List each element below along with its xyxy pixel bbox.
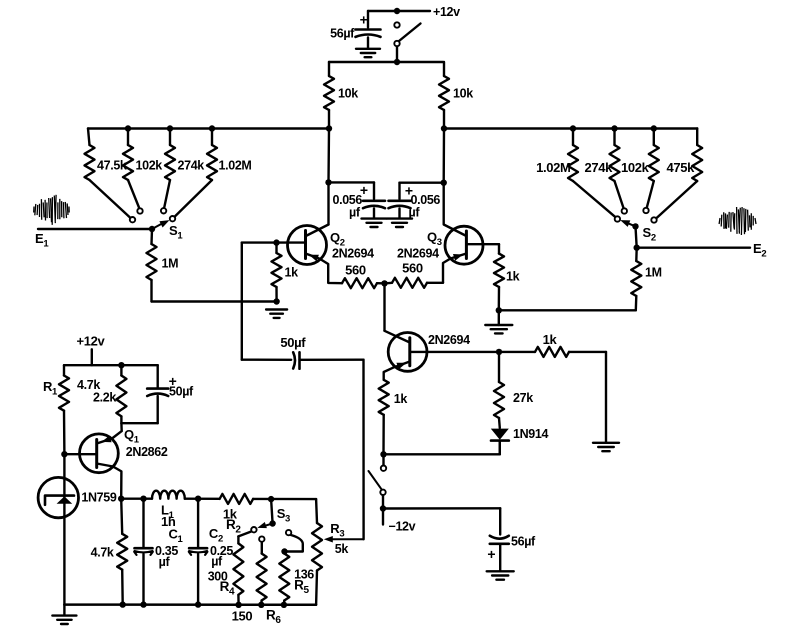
wire to right 1M bottom (499, 309, 636, 311)
svg-text:1M: 1M (162, 257, 179, 271)
svg-text:475k: 475k (666, 160, 695, 175)
wire L1 right (185, 498, 220, 500)
switch S2 contact a (615, 216, 620, 221)
wire 10k right bottom lead (443, 110, 445, 129)
diode 1N914 (491, 429, 509, 440)
wire Q4 base lead (410, 351, 499, 353)
ground 0.056 left (362, 217, 387, 219)
svg-text:560: 560 (402, 260, 423, 275)
ground left bias (266, 308, 287, 310)
capacitor 0.056uf left (363, 200, 385, 203)
potentiometer R3 5k (312, 523, 322, 571)
node E2 junction (634, 245, 640, 251)
node bus tap 1.02M right (570, 125, 576, 131)
inductor L1 (152, 491, 185, 499)
wire +12v stub lower (91, 349, 93, 365)
svg-text:1N759: 1N759 (81, 491, 116, 505)
svg-text:27k: 27k (513, 391, 533, 405)
transistor Q1 emitter arrow (102, 436, 112, 443)
wire S2 to E2 node (636, 226, 637, 247)
node left cap tap (325, 179, 331, 185)
transistor Q3 emitter (443, 254, 466, 283)
wire L1 left (121, 498, 152, 500)
transistor Q2 emitter (306, 254, 343, 284)
wire right cap branch (400, 181, 444, 183)
resistor 560 left (342, 278, 377, 288)
node emitter junction (381, 280, 387, 286)
wire pot top lead (315, 499, 318, 523)
svg-text:50µf: 50µf (280, 335, 306, 350)
wire 10k left bottom lead (328, 110, 330, 128)
transistor Q3 base bar (465, 231, 468, 259)
node bottom C1 (140, 601, 146, 607)
wire Q2 collector (327, 182, 329, 224)
svg-text:10k: 10k (338, 87, 358, 101)
switch S1 contact b (137, 208, 142, 213)
transistor Q1 emitter (97, 431, 122, 443)
resistor 47.5k (85, 145, 95, 180)
waveform output scribble (719, 207, 756, 235)
wire 1.02M right to contact (573, 181, 616, 217)
waveform input scribble (34, 195, 69, 225)
svg-text:+: + (487, 546, 495, 562)
resistor 102k right (649, 145, 659, 181)
node bottom R4 (235, 602, 241, 608)
wire contact c hook (285, 535, 303, 552)
wire E2 output (637, 246, 750, 248)
svg-text:1k: 1k (506, 270, 520, 284)
resistor 274k right (610, 145, 620, 181)
resistor R6 150 (261, 542, 263, 553)
svg-text:1k: 1k (394, 392, 408, 406)
resistor 560 right (392, 278, 427, 288)
ground bottom 56uf (487, 570, 514, 572)
svg-text:56µf: 56µf (511, 535, 536, 549)
wire Q3 collector (444, 183, 467, 236)
wire left bus (88, 127, 329, 129)
svg-text:µf: µf (159, 555, 171, 569)
svg-text:+12v: +12v (77, 333, 106, 348)
svg-text:E1: E1 (35, 231, 49, 250)
node C2 tap (195, 496, 201, 502)
transistor Q1 base bar (95, 440, 98, 468)
node bus tap 274k (167, 125, 173, 131)
wire Q3 base lead (466, 243, 499, 245)
svg-text:R4: R4 (220, 579, 235, 598)
wire contact to node (382, 495, 384, 508)
wire emitter node drop (383, 283, 385, 330)
wire R2 to S3 node (253, 498, 316, 501)
svg-text:102k: 102k (621, 160, 650, 175)
diode zener bar (45, 496, 74, 505)
wire 560 right leads (385, 282, 393, 285)
wire left cap branch (329, 181, 375, 183)
switch S3 contact b (259, 536, 264, 541)
svg-text:R6: R6 (266, 608, 281, 627)
resistor 1k Q4 emitter (379, 380, 389, 415)
resistor 1M right (631, 261, 641, 296)
switch S3 blade arrow (264, 524, 273, 527)
capacitor 56uf bottom (490, 536, 509, 539)
node lower rail tap (118, 362, 124, 368)
wire Q4 collector (385, 331, 410, 343)
wire -12v stub (382, 509, 384, 525)
capacitor 50uf coupling (293, 352, 295, 368)
resistor 1.02M right (568, 145, 578, 181)
wire lower supply rail (64, 364, 158, 366)
node bottom Q1col (120, 601, 126, 607)
resistor 1k Q3 load (498, 244, 500, 253)
svg-text:274k: 274k (584, 160, 613, 175)
svg-text:Q1: Q1 (124, 427, 140, 446)
wire pot wiper (331, 538, 364, 540)
resistor 475k (692, 145, 702, 181)
wire 102k to contact (128, 180, 139, 208)
wire cap right to gnd (398, 209, 400, 219)
svg-text:1.02M: 1.02M (536, 160, 570, 175)
svg-text:µf: µf (349, 205, 361, 219)
wire 274k right to contact (615, 181, 624, 208)
wire cap to ground (367, 38, 369, 49)
pot wiper arrow (324, 536, 333, 543)
wire bottom rail (64, 603, 316, 606)
wire load node stub (498, 310, 500, 325)
wire through zener (63, 454, 65, 605)
svg-text:2N2694: 2N2694 (397, 247, 439, 261)
node collector-L1 tee (118, 496, 124, 502)
node -12v junction (380, 505, 386, 511)
wire switch feed (384, 453, 500, 455)
svg-text:2N2694: 2N2694 (428, 333, 470, 347)
switch S2 contact d (651, 217, 656, 222)
svg-text:S2: S2 (643, 225, 656, 244)
node right cap tap (441, 180, 447, 186)
resistor R5 136 (279, 554, 289, 601)
wire coupling left (242, 359, 291, 361)
transistor Q4 base bar (408, 338, 411, 366)
transistor Q2 circle (288, 226, 327, 265)
wire 102k right top lead (653, 129, 655, 146)
svg-text:+: + (360, 12, 368, 28)
wire coupling right (300, 359, 364, 361)
node bottom R6 (258, 602, 264, 608)
resistor 2.2k (120, 365, 122, 375)
node S1 pole (149, 226, 155, 232)
node switch top (380, 451, 386, 457)
wire Q2 base drop (241, 243, 243, 360)
ground 0.056 right (387, 217, 412, 219)
node bus tap 102k (125, 125, 131, 131)
switch S2 contact b (622, 208, 627, 213)
svg-text:2N2862: 2N2862 (126, 445, 168, 459)
switch S1 contact d (170, 216, 175, 221)
svg-text:−12v: −12v (389, 520, 416, 534)
switch S3 contact c (286, 530, 291, 535)
wire collector supply rail (329, 61, 443, 63)
resistor R2 1k (220, 494, 254, 504)
node bus tap 1.02M (209, 125, 215, 131)
node Q3 load bottom (496, 307, 502, 313)
svg-text:102k: 102k (136, 159, 163, 173)
svg-text:56µf: 56µf (330, 26, 355, 40)
wire +12v supply rail (368, 10, 430, 12)
svg-text:2N2694: 2N2694 (332, 247, 374, 261)
resistor 10k left (324, 76, 334, 110)
resistor 27k (494, 382, 504, 418)
switch S2 wiper arrow (626, 222, 636, 226)
wire right collector drop (443, 129, 446, 183)
svg-text:1N914: 1N914 (513, 427, 548, 441)
svg-text:C2: C2 (209, 526, 223, 545)
svg-text:1k: 1k (543, 332, 558, 347)
wire contact a to R4 (238, 532, 251, 537)
ground right mid (593, 442, 619, 444)
node S3 feed (268, 496, 274, 502)
wire 475k top lead (696, 129, 698, 146)
switch S1 contact a (130, 217, 135, 222)
svg-text:R1: R1 (43, 379, 58, 398)
switch Spwr2 blade (369, 471, 382, 489)
node bus tap 274k right (611, 125, 617, 131)
node +12v junction (394, 8, 400, 14)
transistor Q3 circle (445, 226, 483, 264)
svg-text:1k: 1k (285, 266, 299, 280)
wire 47.5k to contact (90, 180, 131, 218)
switch Spwr2 lower contact (380, 490, 385, 495)
resistor 1.02M left (207, 145, 217, 180)
wire Q1 base lead (64, 453, 96, 455)
svg-text:µf: µf (211, 555, 223, 569)
svg-text:274k: 274k (178, 159, 205, 173)
svg-text:5k: 5k (335, 542, 349, 556)
svg-text:150: 150 (232, 608, 253, 623)
node S2 pole (632, 223, 638, 229)
node S3 pole (269, 520, 275, 526)
svg-text:E2: E2 (753, 241, 766, 260)
svg-text:C1: C1 (169, 526, 184, 545)
transistor Q4 emitter (384, 362, 410, 380)
node Q4 base junction (496, 349, 502, 355)
svg-text:1M: 1M (645, 266, 662, 280)
svg-text:10k: 10k (453, 87, 473, 101)
wire S3 pole lead (271, 499, 273, 523)
transistor Q1 collector (97, 464, 122, 499)
svg-text:560: 560 (345, 263, 366, 278)
resistor 1M left (150, 229, 153, 244)
wire 1M bottom to ground node (152, 300, 277, 302)
wire 274k right top lead (613, 129, 615, 146)
wire 274k to contact (164, 180, 170, 208)
svg-text:S3: S3 (277, 506, 290, 525)
resistor 102k (123, 145, 133, 180)
wire 50uf branch (156, 365, 158, 387)
node supply rail (394, 59, 400, 65)
diode zener triangle (57, 496, 73, 503)
svg-text:+12v: +12v (433, 5, 460, 19)
node Q2 base-1k (273, 239, 279, 245)
ground Q3 load (485, 324, 512, 326)
resistor 274k (165, 145, 175, 180)
node 1k-ground left (273, 298, 279, 304)
node bus-10k junction right (441, 125, 447, 131)
svg-text:µf: µf (409, 205, 421, 219)
wire node to contact (382, 454, 384, 465)
capacitor 50uf bypass (147, 387, 168, 390)
wire 10k right lead (443, 62, 445, 76)
wire 560 left to node (377, 282, 385, 285)
wire 102k right to contact (647, 181, 654, 208)
wire cap to ground bottom (499, 544, 501, 571)
capacitor C1 0.35uf (142, 499, 144, 547)
wire to Q1 emitter (120, 423, 123, 431)
switch S1 contact c (161, 208, 166, 213)
transistor Q2 emitter arrow (309, 255, 319, 262)
transistor Q4 emitter arrow (396, 363, 406, 370)
svg-text:S1: S1 (169, 223, 183, 242)
wire -12v to cap (383, 507, 500, 510)
node R5 top (281, 548, 287, 554)
svg-text:R2: R2 (226, 517, 241, 536)
switch S2 contact c (643, 208, 648, 213)
node bus tap 102k right (651, 125, 657, 131)
wire switch to rail (396, 47, 398, 62)
transistor Q3 emitter arrow (453, 254, 463, 261)
wire 50uf to corner (156, 396, 158, 423)
ground below 56uf (356, 48, 380, 50)
svg-text:4.7k: 4.7k (91, 546, 114, 560)
resistor 1k Q2 bias (272, 253, 282, 287)
switch S-power blade (399, 24, 421, 42)
wire 102k top lead (127, 129, 129, 146)
diode zener 1N759 circle (38, 477, 78, 517)
svg-text:2.2k: 2.2k (93, 391, 116, 405)
wire Q2 base lead (242, 241, 306, 243)
resistor 10k right (439, 76, 449, 110)
wire 1.02M to contact (175, 180, 212, 217)
wire 1k corner drop (605, 352, 607, 443)
ground main (52, 614, 76, 616)
capacitor C 56uf (top) (356, 28, 381, 31)
wire 274k top lead (169, 129, 171, 146)
node Q1 base (61, 451, 67, 457)
transistor Q4 circle (388, 333, 427, 372)
wire left collector drop (327, 129, 330, 183)
node bottom C2 (195, 601, 201, 607)
node bottom R5 (281, 602, 287, 608)
svg-text:1.02M: 1.02M (219, 159, 252, 173)
wire ground stub main (63, 605, 65, 616)
switch S3 contact a (251, 527, 256, 532)
wire cap lead (367, 11, 369, 28)
switch S-power lower contact (394, 41, 399, 46)
wire cap left to gnd (373, 209, 375, 219)
resistor R1 4.7k (63, 365, 65, 375)
wire 1.02M right top lead (572, 129, 574, 146)
wire 475k to contact (656, 181, 697, 218)
switch Spwr2 upper contact (381, 466, 386, 471)
resistor 4.7k lower (117, 534, 127, 570)
transistor Q1 circle (80, 434, 119, 473)
transistor Q2 base bar (304, 231, 307, 259)
wire E1 input (38, 228, 152, 230)
svg-text:50µf: 50µf (169, 384, 194, 398)
wire 47.5k top lead (88, 129, 90, 146)
switch S1 wiper arrow (152, 223, 164, 229)
wire 1.02M top lead (211, 129, 213, 146)
switch S-power upper contact (394, 22, 399, 27)
wire right bus (444, 127, 697, 129)
capacitor C2 0.25uf (197, 499, 199, 547)
resistor 1k to ground right (499, 351, 535, 353)
node bus-10k junction left (326, 125, 332, 131)
wire coupling drop (362, 360, 365, 540)
svg-text:Q3: Q3 (427, 230, 442, 249)
node C1 tap (140, 496, 146, 502)
wire 10k left lead (328, 62, 330, 76)
capacitor 0.056uf right (389, 200, 411, 203)
resistor R4 300 (237, 536, 239, 543)
